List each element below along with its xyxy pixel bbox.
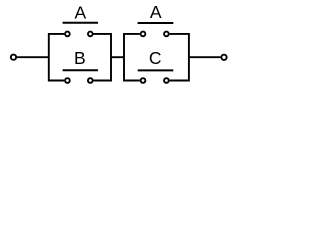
node left junction bracket of A/B parallel block <box>49 34 64 81</box>
switch A2 contact pin 1 <box>141 32 146 37</box>
switch B contact pin 1 <box>65 78 70 83</box>
terminal left <box>11 55 16 60</box>
node left junction bracket of A/C parallel block <box>124 34 140 81</box>
switch B contact pin 2 <box>88 78 93 83</box>
switch A1 contact pin 2 <box>88 32 93 37</box>
svg-text:A: A <box>150 2 162 22</box>
wire right lead <box>189 56 221 58</box>
switch C contact pin 2 <box>164 78 169 83</box>
svg-text:C: C <box>149 48 162 68</box>
switch A2 blade bar <box>138 22 174 24</box>
svg-text:A: A <box>74 2 86 22</box>
terminal right <box>221 55 226 60</box>
wire connector between blocks <box>111 56 124 58</box>
svg-text:B: B <box>74 48 86 68</box>
node right junction bracket of A/B parallel block <box>94 34 112 81</box>
switch C contact pin 1 <box>141 78 146 83</box>
switch A1 contact pin 1 <box>65 32 70 37</box>
switch A1 blade bar <box>63 22 98 24</box>
node right junction bracket of A/C parallel block <box>170 34 189 81</box>
switch C blade bar <box>138 69 174 71</box>
switch B blade bar <box>63 69 98 71</box>
wire left lead <box>17 56 49 58</box>
switch A2 contact pin 2 <box>164 32 169 37</box>
